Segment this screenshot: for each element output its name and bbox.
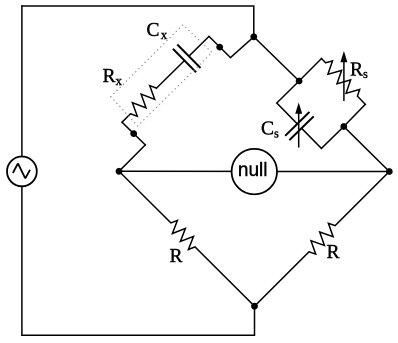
wire entry to top corner of parallel loop — [299, 59, 321, 82]
wire top rail — [22, 6, 254, 37]
wire right corner to exit node — [344, 104, 366, 126]
node lower terminal of unknown — [130, 130, 137, 137]
resistor Rx — [122, 86, 157, 123]
capacitor Cs (variable) — [277, 103, 298, 124]
node left vertex — [116, 168, 123, 175]
arrow of Rs — [343, 60, 345, 100]
dotted box around Rx Cx — [111, 25, 212, 126]
wire Rx to Cx — [157, 61, 185, 89]
wire bottom rail — [22, 306, 255, 335]
svg-text:R: R — [170, 246, 183, 267]
wire left vertex to null — [119, 170, 232, 172]
resistor R right — [255, 172, 390, 307]
node exit of standard arm — [340, 123, 347, 130]
wire jog P3 to P4 — [209, 36, 231, 57]
node bottom vertex — [251, 303, 258, 310]
resistor R left — [119, 171, 255, 306]
wire null to right vertex — [277, 171, 389, 173]
wire top vertex to Rs/Cs entry — [254, 37, 299, 81]
node upper terminal of unknown — [216, 44, 223, 51]
wire bottom corner to exit node — [321, 127, 343, 149]
wire Cx to jog P3 — [189, 36, 209, 56]
wire entry to left corner of parallel loop — [277, 81, 299, 103]
resistor Rs (variable) — [322, 59, 366, 105]
AC source V1 — [7, 157, 37, 187]
capacitor Cx — [174, 45, 200, 71]
node right vertex — [386, 168, 393, 175]
wire left rail upper — [21, 6, 23, 157]
node top vertex — [250, 33, 257, 40]
null detector — [232, 149, 277, 194]
arrow of Cs — [298, 112, 300, 147]
wire left vertex to jog P1 — [119, 145, 145, 171]
node entry of standard arm — [296, 78, 303, 85]
wire P4 to top vertex — [231, 37, 254, 58]
wire left rail lower — [21, 186, 23, 335]
svg-text:null: null — [238, 160, 268, 181]
svg-text:R: R — [327, 242, 340, 263]
wire jog P1 to Rx branch start — [122, 122, 145, 145]
wire exit to right vertex — [344, 127, 390, 172]
